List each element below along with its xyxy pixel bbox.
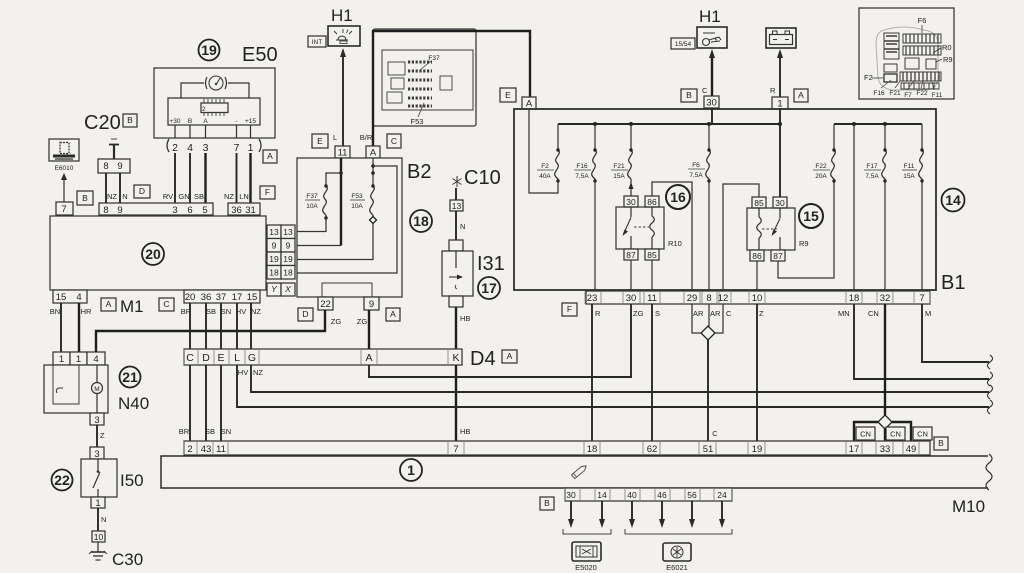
loom bottom pin strip: [565, 488, 732, 501]
svg-text:N: N: [122, 192, 127, 201]
ignition switch H1 label: [699, 7, 721, 26]
wire I31 to bus pin7 (HB): [456, 307, 470, 441]
svg-text:40A: 40A: [539, 173, 551, 180]
wire colour labels NZ LN: [224, 192, 249, 201]
wire branch to fuse F37: [326, 173, 341, 186]
svg-text:C30: C30: [112, 550, 143, 569]
connector C20 symbol: [109, 139, 119, 159]
wire M1 pin7 to ground E6010: [61, 173, 67, 202]
svg-text:7,5A: 7,5A: [575, 173, 589, 180]
svg-text:11: 11: [338, 148, 348, 159]
wire B1 pin12 to junction (C): [715, 304, 723, 333]
wire R10-86 to B1 pin29: [652, 182, 692, 291]
loom top pin strip: [184, 441, 930, 455]
wire F2 to B1-A: [529, 109, 558, 193]
svg-text:30: 30: [706, 98, 717, 109]
svg-text:21: 21: [122, 369, 138, 385]
callout 21: [120, 367, 141, 388]
interior lamp H1 label: [331, 6, 353, 25]
connector strip D4: [184, 349, 462, 365]
svg-text:H1: H1: [699, 7, 721, 26]
svg-text:19: 19: [201, 42, 217, 58]
connector label B (H1): [681, 89, 697, 102]
connector C20 label: [84, 112, 121, 134]
pencil mark icon: [571, 464, 587, 479]
component name B1: [941, 272, 965, 294]
wire E50 pin1 to M1 pin31 (LN): [249, 153, 251, 203]
wire B2-9 to D4-A (ZG): [368, 310, 370, 349]
M1 bottom pin strip 20 36 37 17 15: [184, 290, 260, 303]
wire B1 pin12 to R9-85: [723, 184, 759, 291]
svg-text:36: 36: [231, 205, 242, 216]
svg-text:15: 15: [803, 208, 819, 224]
svg-text:5: 5: [202, 205, 207, 216]
wire M1-17 to D4-L (HV): [236, 303, 238, 349]
wire F21 to relay R10 pin30: [629, 181, 634, 196]
svg-text:B: B: [686, 90, 692, 100]
connector label A (D4): [502, 350, 517, 363]
svg-text:3: 3: [203, 142, 209, 154]
svg-text:1: 1: [59, 354, 64, 365]
svg-text:F53: F53: [351, 193, 363, 200]
svg-text:24: 24: [717, 490, 727, 500]
connector label F: [260, 186, 275, 199]
svg-text:30: 30: [775, 198, 785, 208]
svg-text:31: 31: [245, 205, 256, 216]
svg-text:ZG: ZG: [357, 317, 368, 326]
wire D4-C to bus pin2 (BR): [179, 365, 190, 441]
svg-text:20: 20: [145, 246, 161, 262]
svg-text:AR: AR: [710, 309, 721, 318]
callout 15: [799, 204, 823, 228]
B1 internal bus right: [834, 122, 922, 126]
battery A1 icon: [766, 28, 796, 48]
svg-text:8: 8: [706, 293, 711, 304]
wire C20-9 to M1-9 (N): [119, 173, 121, 203]
fuse panel picture: [864, 16, 953, 99]
svg-text:D: D: [139, 186, 145, 196]
svg-text:7: 7: [61, 204, 66, 215]
wire colour labels under B1: [595, 309, 931, 318]
wiring loom 1 strip: [161, 454, 992, 490]
B1 top pin 30: [704, 96, 719, 109]
svg-text:22: 22: [54, 472, 70, 488]
svg-text:13: 13: [452, 201, 462, 211]
connector name D4: [470, 348, 496, 370]
svg-text:18: 18: [849, 293, 860, 304]
connector label Y: [267, 283, 281, 296]
svg-text:NZ: NZ: [107, 192, 117, 201]
fuse F37 10A: [305, 184, 328, 219]
wire colour labels RV GN SB: [163, 192, 204, 201]
svg-text:F22: F22: [815, 163, 827, 170]
N40 bottom pin 3: [90, 413, 104, 426]
ground point icon E6010: [49, 139, 79, 172]
inertia switch I50 box: [81, 459, 117, 497]
wire B1 pin30 to internal bus: [711, 108, 713, 124]
component name N40: [118, 394, 149, 413]
svg-text:K: K: [452, 352, 459, 364]
B1 top pin A: [522, 97, 536, 110]
wire B1 pin10 to bus pin19 (Z): [756, 304, 758, 441]
svg-text:51: 51: [703, 444, 714, 455]
svg-text:I50: I50: [120, 471, 144, 490]
svg-text:F11: F11: [932, 92, 943, 99]
svg-text:17: 17: [481, 280, 497, 296]
svg-text:F2: F2: [864, 73, 873, 82]
svg-text:F37: F37: [428, 55, 440, 62]
svg-text:Z: Z: [759, 309, 764, 318]
I50 switch symbol: [93, 459, 100, 497]
wire battery trunk to R9-30: [779, 109, 781, 197]
body computer node 20 (M1): [50, 216, 266, 290]
svg-text:18: 18: [413, 213, 429, 229]
svg-text:36: 36: [201, 292, 212, 303]
M1 top pin strip 8 9 3 6 5: [99, 203, 213, 216]
svg-text:A: A: [106, 299, 112, 309]
svg-text:A: A: [507, 351, 513, 361]
svg-text:43: 43: [201, 444, 212, 455]
svg-text:10: 10: [94, 532, 104, 542]
wire E50 pin2 to M1 pin3 (RV): [174, 153, 176, 203]
connector label E (B1 top): [500, 88, 516, 102]
svg-text:M: M: [925, 309, 931, 318]
svg-text:C: C: [726, 309, 732, 318]
svg-text:NZ: NZ: [251, 307, 261, 316]
wire E50 pin3 to M1 pin5 (SB): [204, 153, 206, 203]
wire B1 pin7 right (M): [922, 304, 989, 362]
svg-text:M: M: [94, 386, 99, 393]
svg-text:SB: SB: [194, 192, 204, 201]
svg-text:86: 86: [647, 197, 657, 207]
lamp icon E5020: [572, 542, 601, 572]
B1 bottom pin strip: [585, 291, 930, 304]
svg-text:12: 12: [718, 293, 729, 304]
svg-text:A: A: [203, 118, 208, 125]
svg-text:13: 13: [283, 227, 293, 237]
I31 switch symbol: [449, 251, 463, 289]
svg-text:NZ: NZ: [253, 368, 263, 377]
svg-text:30: 30: [626, 197, 636, 207]
component name I31: [477, 253, 505, 275]
svg-text:R9: R9: [943, 55, 953, 64]
svg-text:15: 15: [56, 292, 67, 303]
E50 internal pin labels: [169, 118, 256, 125]
svg-text:E5020: E5020: [575, 563, 597, 572]
svg-text:10: 10: [752, 293, 763, 304]
svg-text:ZG: ZG: [633, 309, 644, 318]
E50 internal box: [168, 98, 260, 125]
svg-text:86: 86: [752, 251, 762, 261]
callout 20: [142, 243, 164, 265]
fuse panel picture frame top right: [859, 8, 954, 99]
fuse unit B2 box: [297, 158, 402, 297]
IC chip U1 inside E50: [201, 99, 228, 116]
svg-text:CN: CN: [860, 430, 871, 439]
svg-text:F7: F7: [904, 92, 912, 99]
svg-text:C10: C10: [464, 167, 501, 189]
svg-text:6: 6: [187, 205, 192, 216]
svg-text:1: 1: [76, 354, 81, 365]
connector label A (battery): [794, 89, 808, 102]
svg-text:R9: R9: [799, 239, 809, 248]
relay R10 pins 30 86: [624, 196, 659, 207]
svg-text:+30: +30: [169, 118, 180, 125]
wire F11 to B1 pin7: [921, 181, 923, 291]
svg-text:F22: F22: [916, 90, 928, 97]
svg-text:F2: F2: [541, 163, 549, 170]
svg-text:C: C: [391, 136, 397, 146]
svg-text:MN: MN: [838, 309, 850, 318]
wire CN junction to bus pin49: [892, 422, 911, 441]
svg-text:9: 9: [117, 161, 122, 172]
fuse F2 40A: [537, 124, 560, 183]
connector pin 10: [92, 531, 105, 542]
wire R9-87 to fuse F22: [778, 181, 834, 278]
svg-text:I31: I31: [477, 253, 505, 275]
svg-text:18: 18: [283, 268, 293, 278]
N40 sender sub-box: [53, 365, 79, 404]
connector label D: [134, 185, 150, 198]
svg-text:8: 8: [103, 161, 108, 172]
svg-text:D: D: [202, 352, 210, 364]
squiggle end M wire: [988, 355, 993, 369]
svg-text:9: 9: [286, 241, 291, 251]
gauge symbol inside E50: [206, 76, 227, 90]
svg-text:11: 11: [647, 293, 657, 304]
wire E50 pin4 to M1 pin6 (GN): [189, 153, 191, 203]
svg-text:HB: HB: [460, 314, 470, 323]
component name I50: [120, 471, 144, 490]
svg-text:S: S: [655, 309, 660, 318]
M1 right pin column 13 9 19 18: [267, 225, 281, 279]
svg-text:H1: H1: [331, 6, 353, 25]
svg-text:2: 2: [187, 444, 192, 455]
wire loom-40 arrow down: [629, 501, 635, 528]
svg-text:1: 1: [95, 498, 100, 509]
svg-text:R0: R0: [942, 43, 952, 52]
junction diamond below F53: [370, 217, 377, 224]
svg-text:30: 30: [566, 490, 576, 500]
svg-text:32: 32: [880, 293, 891, 304]
wire B1 pin18 right (MN): [854, 304, 989, 379]
wire B2 pin11 trunk: [339, 158, 343, 246]
ignition switch H1 icon: [697, 27, 727, 48]
fuse F16 7.5A: [574, 124, 597, 183]
junction diamond AR: [701, 326, 715, 340]
svg-text:CN: CN: [868, 309, 879, 318]
svg-text:23: 23: [587, 293, 598, 304]
svg-text:SN: SN: [221, 307, 231, 316]
connector label D (B2 bottom): [298, 308, 313, 321]
svg-text:9: 9: [117, 205, 122, 216]
fuse box location picture frame: [373, 29, 476, 126]
svg-text:SB: SB: [205, 427, 215, 436]
wire B1 pin32 to CN junction: [884, 304, 886, 415]
svg-text:F16: F16: [576, 163, 588, 170]
svg-text:22: 22: [320, 299, 331, 310]
svg-text:Z: Z: [100, 431, 105, 440]
relay R9 box: [747, 208, 795, 250]
bracket E6021 group: [625, 529, 732, 534]
svg-text:C: C: [163, 299, 169, 309]
wire C20-8 to M1-8 (NZ): [105, 173, 107, 203]
B2 bottom pin 22: [318, 297, 333, 310]
svg-text:16: 16: [670, 189, 686, 205]
I31 top connector: [449, 240, 463, 251]
B2 top pin 11: [335, 146, 350, 159]
svg-text:19: 19: [752, 444, 763, 455]
svg-text:L: L: [234, 352, 240, 364]
svg-text:7: 7: [234, 142, 240, 154]
svg-text:4: 4: [93, 354, 98, 365]
wire loom-56 arrow down: [689, 501, 695, 528]
svg-text:F37: F37: [306, 193, 318, 200]
svg-text:17: 17: [849, 444, 860, 455]
svg-text:A: A: [390, 309, 396, 319]
B2 bottom sub-box: [322, 283, 372, 297]
instrument cluster E50 label: [242, 44, 278, 66]
svg-text:F21: F21: [613, 163, 625, 170]
B1 top pin 1: [772, 97, 788, 110]
svg-text:E6021: E6021: [666, 563, 688, 572]
CN label boxes: [856, 427, 932, 440]
relay R9 pins 85 30: [752, 197, 787, 208]
I31 bottom connector: [449, 296, 463, 307]
svg-text:HV: HV: [238, 368, 248, 377]
wire loom-14 arrow down: [599, 501, 605, 528]
svg-text:87: 87: [773, 251, 783, 261]
svg-text:AR: AR: [693, 309, 704, 318]
wire R10-87 to B1 pin30: [630, 260, 632, 291]
svg-text:F16: F16: [873, 90, 885, 97]
svg-text:15A: 15A: [903, 173, 915, 180]
connector label X: [281, 283, 295, 296]
svg-text:NZ: NZ: [224, 192, 234, 201]
svg-text:B1: B1: [941, 272, 965, 294]
B2 bottom pin 9: [364, 297, 379, 310]
wire R10-85 to B1 pin11: [651, 260, 653, 291]
connector C10 label: [464, 167, 501, 189]
M1 top pin strip 36 31: [228, 203, 260, 216]
E50 internal pin stubs: [175, 125, 251, 138]
svg-text:10A: 10A: [351, 203, 363, 210]
svg-text:F53: F53: [411, 117, 424, 126]
svg-text:7: 7: [919, 293, 924, 304]
fuse F17 7.5A: [864, 124, 887, 183]
svg-text:A: A: [365, 352, 372, 364]
wire B2-11 up to H1 (L): [333, 48, 346, 146]
connector C10 star symbol: [453, 176, 462, 187]
svg-text:LN: LN: [239, 192, 249, 201]
svg-text:C: C: [186, 352, 194, 364]
svg-text:+15: +15: [245, 118, 256, 125]
svg-text:1: 1: [407, 462, 415, 478]
svg-text:B2: B2: [407, 161, 431, 183]
fuse box picture: [382, 50, 473, 126]
svg-text:F: F: [567, 304, 572, 314]
svg-text:15: 15: [247, 292, 258, 303]
svg-text:ZG: ZG: [331, 317, 342, 326]
wire D4-G right (NZ): [251, 365, 989, 392]
svg-text:3: 3: [94, 415, 99, 426]
wire B2-A battery feed loop to B1-A (B/R): [360, 31, 530, 146]
svg-text:SN: SN: [221, 427, 231, 436]
svg-text:B: B: [938, 438, 944, 448]
svg-text:18: 18: [587, 444, 598, 455]
svg-text:D4: D4: [470, 348, 496, 370]
svg-text:M1: M1: [120, 297, 144, 316]
connector C20 pin box 8 9: [98, 159, 130, 173]
svg-text:E6010: E6010: [55, 165, 74, 172]
wire F17 to B1 pin32: [884, 181, 886, 291]
svg-text:INT: INT: [312, 39, 323, 46]
svg-text:F17: F17: [866, 163, 878, 170]
I50 top pin 3: [90, 447, 104, 460]
relay R10 internals: [623, 207, 682, 249]
svg-text:85: 85: [754, 198, 764, 208]
svg-text:B: B: [544, 498, 550, 508]
wire B1-1 up to battery (R): [770, 49, 783, 97]
M1 bottom pin strip 15 4: [53, 290, 87, 303]
component name M1: [120, 297, 144, 316]
B2 top pin A: [366, 146, 380, 159]
svg-text:20A: 20A: [815, 173, 827, 180]
wire D4-D to bus pin43 (SB): [205, 365, 215, 441]
svg-text:7: 7: [453, 444, 458, 455]
relay R10 box: [616, 207, 664, 249]
svg-text:B: B: [188, 118, 192, 125]
C10 pin 13: [450, 200, 463, 211]
svg-text:GN: GN: [178, 192, 189, 201]
svg-text:62: 62: [647, 444, 658, 455]
wire F37 to B2 pin13: [297, 218, 326, 232]
wire colour labels NZ N: [107, 192, 128, 201]
svg-text:N: N: [101, 515, 106, 524]
svg-text:F: F: [265, 187, 270, 197]
svg-text:A: A: [798, 90, 804, 100]
svg-text:4: 4: [76, 292, 81, 303]
svg-text:56: 56: [687, 490, 697, 500]
lamp icon E6021: [663, 543, 691, 572]
svg-text:19: 19: [269, 254, 279, 264]
wire C10 to I31 (N): [456, 188, 465, 240]
svg-text:40: 40: [627, 490, 637, 500]
svg-text:49: 49: [906, 444, 917, 455]
connector label E (B2 top): [312, 134, 328, 148]
svg-text:E: E: [317, 136, 323, 146]
connector label A (E50): [263, 150, 277, 163]
wire D4-A to B1 pin30 (ZG): [369, 304, 631, 377]
wire B2 pin11 to pin9 row: [297, 245, 341, 247]
svg-text:2: 2: [172, 142, 178, 154]
wire M1-36 to D4-D (SB): [205, 303, 207, 349]
svg-text:9: 9: [369, 299, 374, 310]
fuse F11 15A: [902, 124, 924, 183]
svg-text:9: 9: [272, 241, 277, 251]
svg-text:M10: M10: [952, 497, 985, 516]
fuse F21 15A: [611, 124, 633, 181]
svg-text:37: 37: [216, 292, 227, 303]
svg-text:F6: F6: [692, 162, 700, 169]
wire colour labels BN HR: [50, 307, 92, 316]
wire F53 to B2 pin19: [297, 224, 373, 260]
B2 left pin column 13 9 19 18: [281, 225, 295, 279]
component name B2: [407, 161, 431, 183]
connector label INT: [308, 36, 326, 47]
svg-text:D: D: [302, 309, 308, 319]
svg-text:B: B: [127, 115, 133, 125]
